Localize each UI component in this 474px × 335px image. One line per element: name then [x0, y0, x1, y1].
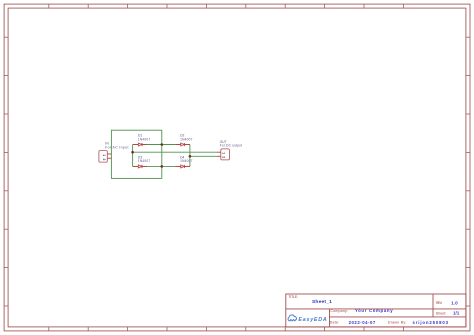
svg-text:1N4007: 1N4007 [138, 159, 151, 163]
svg-text:2: 2 [221, 156, 225, 158]
title block v-divider logo cell [329, 309, 331, 327]
svg-text:Your Company: Your Company [355, 308, 393, 313]
svg-text:2022-04-07: 2022-04-07 [349, 320, 376, 325]
frame tick marks right [466, 37, 470, 306]
frame tick marks bottom [49, 327, 404, 331]
wire row D1-D2 [133, 144, 190, 146]
junction node at right bus [189, 155, 192, 158]
svg-text:REV:: REV: [436, 301, 443, 305]
pin 2 of OUT [217, 155, 221, 157]
svg-text:1/1: 1/1 [453, 311, 460, 316]
diode D4 [175, 165, 190, 168]
svg-text:Drawn By:: Drawn By: [388, 321, 407, 325]
svg-text:1: 1 [221, 152, 225, 154]
svg-text:TITLE:: TITLE: [288, 295, 298, 299]
frame tick marks top [49, 4, 404, 8]
svg-text:EasyEDA: EasyEDA [298, 317, 326, 323]
junction node top middle [161, 143, 164, 146]
pin 2 of IN [107, 157, 111, 159]
svg-text:For AC Input: For AC Input [105, 146, 128, 150]
svg-text:Company:: Company: [330, 309, 348, 313]
title block h-divider 1 [286, 308, 466, 310]
pin 1 of OUT [217, 151, 221, 153]
svg-text:For DC output: For DC output [220, 143, 242, 147]
diode D2 [175, 143, 190, 146]
title block v-divider rev/sheet [432, 294, 434, 317]
svg-text:1: 1 [102, 154, 106, 156]
svg-text:1N4007: 1N4007 [180, 159, 193, 163]
EasyEDA logo cloud [288, 315, 296, 321]
pin 1 of IN [107, 153, 111, 155]
wire loop rectangle (AC input net) [111, 130, 161, 178]
svg-text:2: 2 [102, 159, 106, 161]
wire right bus [189, 145, 191, 167]
wire to OUT pin1 [133, 151, 217, 153]
title block h-divider 2 [330, 316, 466, 318]
svg-text:1N4007: 1N4007 [180, 137, 193, 141]
svg-text:1N4007: 1N4007 [138, 137, 151, 141]
connector OUT [217, 149, 229, 160]
title block outline [286, 294, 466, 327]
diode D3 [133, 165, 147, 168]
wire to OUT pin2 [190, 155, 217, 157]
wire row D3-D4 [133, 165, 190, 167]
svg-text:1.0: 1.0 [451, 300, 458, 305]
junction node at left bus [131, 151, 134, 154]
junction node bottom middle [161, 165, 164, 168]
wire left bus [132, 145, 134, 167]
svg-text:srijon250803: srijon250803 [413, 320, 449, 325]
svg-text:Date:: Date: [330, 321, 340, 325]
frame tick marks left [4, 37, 8, 306]
diode D1 [133, 143, 147, 146]
connector IN [99, 151, 112, 163]
svg-text:Sheet_1: Sheet_1 [312, 299, 332, 305]
svg-text:Sheet:: Sheet: [436, 311, 446, 315]
